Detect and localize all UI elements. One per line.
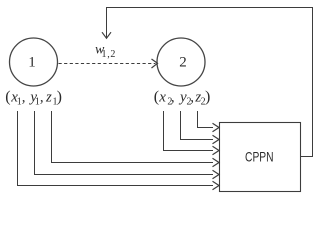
arrowhead x1 into CPPN [213, 181, 220, 189]
svg-text:CPPN: CPPN [245, 149, 274, 165]
arrowhead x2 into CPPN [213, 146, 220, 154]
arrowhead feedback down to w_1,2 [102, 32, 111, 38]
CPPN box [220, 123, 301, 192]
svg-text:,: , [22, 89, 26, 105]
wire y1 input [35, 111, 214, 175]
svg-text:z: z [45, 89, 52, 105]
svg-text:(: ( [5, 88, 10, 105]
feedback wire from CPPN output around to weight [107, 8, 313, 157]
svg-text:1: 1 [28, 54, 36, 70]
wire z2 input [198, 111, 214, 128]
wire x1 input [18, 111, 214, 186]
svg-text:2: 2 [179, 54, 187, 70]
svg-text:x: x [158, 89, 166, 105]
dashed connection wire from node 1 to node 2 [59, 63, 156, 65]
svg-text:): ) [57, 88, 62, 105]
arrowhead y1 into CPPN [213, 170, 220, 178]
wire y2 input [181, 111, 214, 140]
wire x2 input [164, 111, 214, 151]
svg-text:1,2: 1,2 [102, 49, 117, 60]
svg-text:): ) [205, 88, 210, 105]
svg-text:,: , [171, 89, 175, 105]
svg-text:,: , [40, 89, 44, 105]
wire z1 input [52, 111, 214, 163]
node 1 circle [10, 38, 58, 86]
arrowhead into node 2 [152, 59, 158, 68]
arrowhead z2 into CPPN [213, 123, 220, 131]
arrowhead y2 into CPPN [213, 135, 220, 143]
coordinate label (x2,y2,z2) [154, 88, 211, 107]
arrowhead z1 into CPPN [213, 158, 220, 166]
node 2 circle [157, 38, 205, 86]
coordinate label (x1,y1,z1) [5, 88, 62, 107]
svg-text:,: , [190, 89, 194, 105]
